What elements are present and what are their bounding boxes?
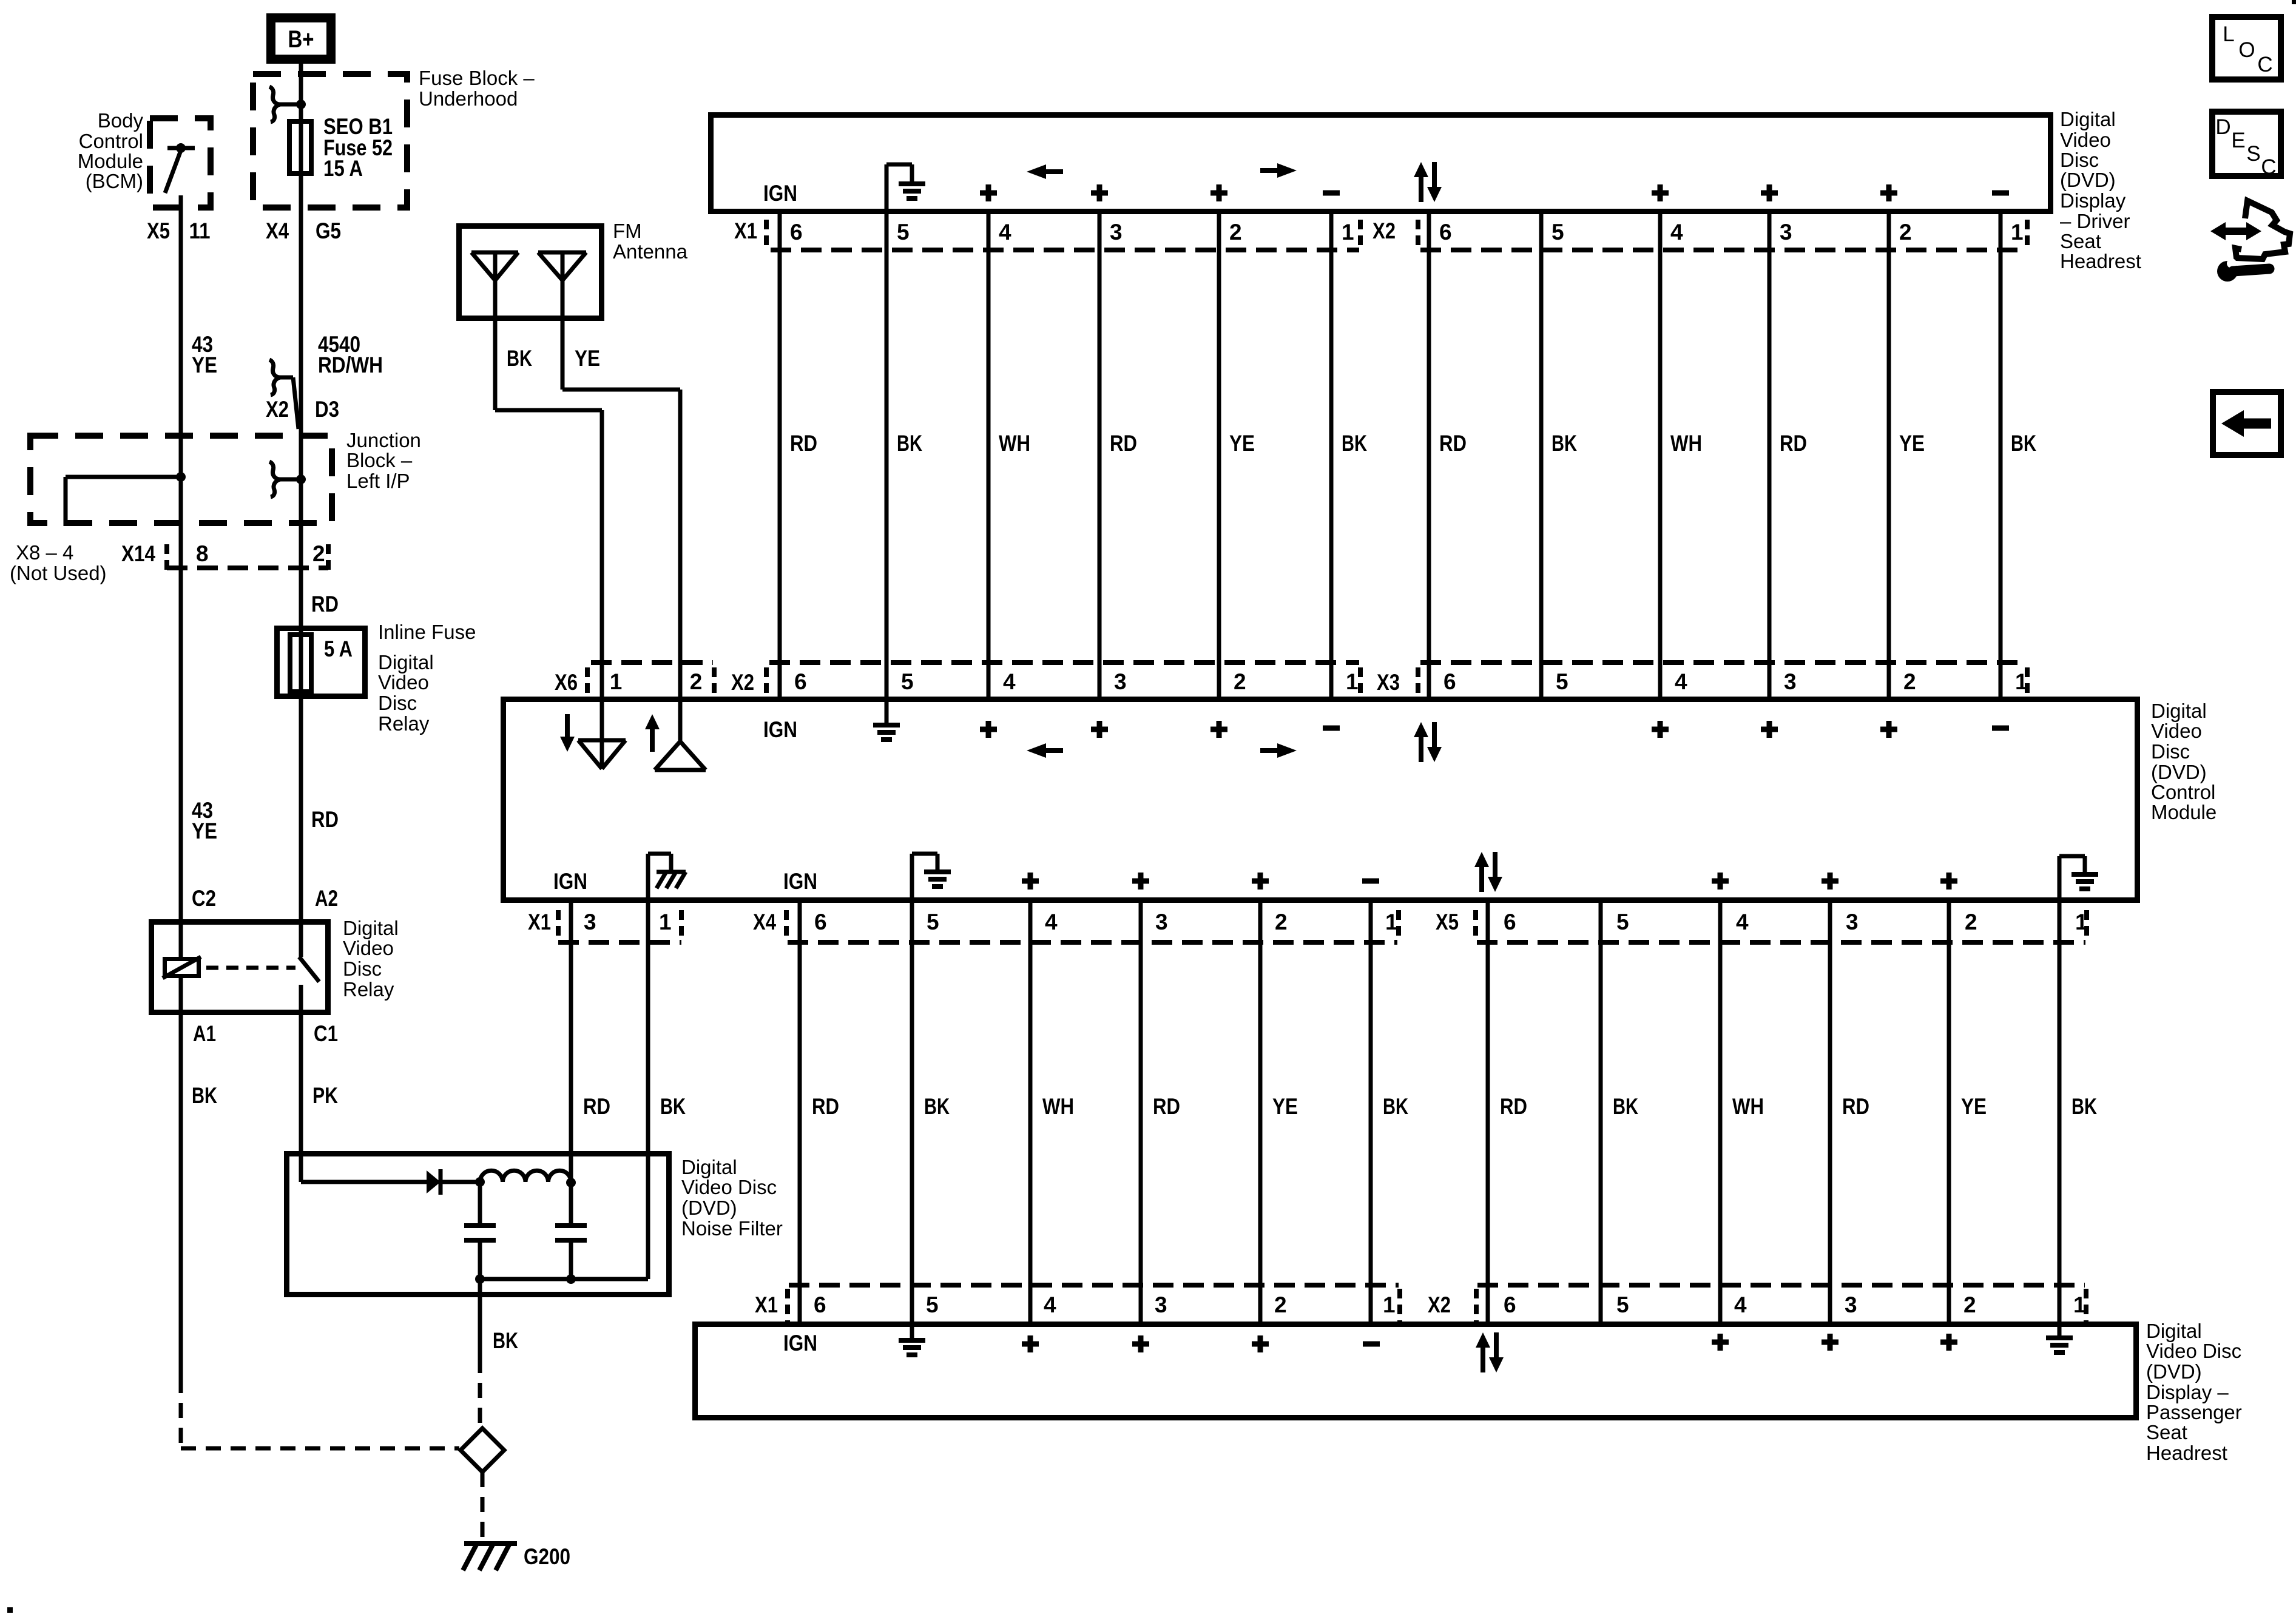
svg-text:RD: RD bbox=[812, 1094, 839, 1119]
wire X5-5 BK bbox=[1599, 900, 1603, 1325]
svg-text:RD: RD bbox=[1153, 1094, 1180, 1119]
wire X4-1 BK bbox=[1369, 900, 1373, 1325]
svg-text:Video: Video bbox=[378, 671, 429, 694]
wire X2-1 BK bbox=[1999, 212, 2003, 699]
svg-text:RD: RD bbox=[1780, 431, 1807, 456]
top box symbols bbox=[980, 184, 997, 201]
svg-text:WH: WH bbox=[1670, 431, 1702, 456]
svg-text:5: 5 bbox=[926, 1292, 939, 1317]
svg-text:BK: BK bbox=[2071, 1094, 2097, 1119]
filter input wire bbox=[301, 1180, 427, 1184]
DVD display passenger seat headrest box bbox=[695, 1325, 2136, 1418]
svg-text:Module: Module bbox=[2151, 801, 2217, 823]
svg-text:RD: RD bbox=[1439, 431, 1467, 456]
dashed row 1 bbox=[771, 248, 1359, 252]
control module ground X4-5 bbox=[912, 854, 951, 900]
svg-text:3: 3 bbox=[584, 910, 596, 934]
svg-text:3: 3 bbox=[1845, 1292, 1857, 1317]
svg-text:Headrest: Headrest bbox=[2146, 1442, 2227, 1464]
node diode-inductor bbox=[475, 1177, 485, 1187]
svg-text:BK: BK bbox=[660, 1094, 686, 1119]
svg-text:X8 – 4: X8 – 4 bbox=[16, 541, 73, 564]
wire 4540 RD/WH bbox=[299, 211, 303, 957]
svg-text:G5: G5 bbox=[316, 218, 341, 243]
svg-text:Passenger: Passenger bbox=[2146, 1401, 2242, 1423]
svg-text:– Driver: – Driver bbox=[2060, 210, 2130, 232]
digital video disc relay box bbox=[152, 922, 328, 1013]
svg-text:2: 2 bbox=[1899, 220, 1912, 245]
antenna send symbol X6-2 bbox=[645, 699, 706, 770]
svg-text:3: 3 bbox=[1846, 910, 1859, 934]
node inductor-output bbox=[566, 1178, 576, 1187]
wire X4-3 RD bbox=[1139, 900, 1143, 1325]
svg-text:C1: C1 bbox=[314, 1021, 338, 1046]
svg-text:Disc: Disc bbox=[2151, 740, 2190, 763]
bottom box ground X2-1 bbox=[2046, 1325, 2073, 1352]
svg-text:Relay: Relay bbox=[378, 712, 430, 735]
inline fuse box bbox=[277, 629, 365, 697]
svg-text:Control: Control bbox=[2151, 781, 2215, 803]
svg-text:RD: RD bbox=[583, 1094, 610, 1119]
dashed wire to ground bbox=[481, 1472, 485, 1538]
svg-text:YE: YE bbox=[1899, 431, 1925, 456]
svg-text:3: 3 bbox=[1780, 220, 1792, 245]
svg-text:5: 5 bbox=[1616, 910, 1629, 934]
svg-text:X1: X1 bbox=[528, 910, 551, 934]
wire X5-4 WH bbox=[1718, 900, 1723, 1325]
wire X1-6 RD bbox=[778, 212, 782, 699]
wire B+ to fuse block bbox=[299, 64, 303, 119]
svg-text:1: 1 bbox=[659, 910, 672, 934]
svg-text:(Not Used): (Not Used) bbox=[10, 562, 107, 584]
body control module (BCM) dashed box bbox=[150, 118, 211, 208]
bottom box symbols bbox=[1022, 1335, 1039, 1352]
svg-text:3: 3 bbox=[1155, 910, 1168, 934]
svg-text:BK: BK bbox=[493, 1328, 518, 1353]
svg-text:X2: X2 bbox=[266, 397, 289, 422]
wire X2-2 YE bbox=[1887, 212, 1891, 699]
BCM internal switch bbox=[176, 143, 186, 153]
svg-text:D3: D3 bbox=[315, 397, 339, 422]
svg-text:X6: X6 bbox=[555, 670, 578, 695]
BK output wire bbox=[478, 1279, 482, 1358]
svg-text:8: 8 bbox=[196, 541, 209, 566]
wire X1-1 BK bbox=[1329, 212, 1334, 699]
svg-text:5 A: 5 A bbox=[324, 636, 353, 661]
power node B+ bbox=[271, 18, 331, 59]
svg-text:X1: X1 bbox=[755, 1292, 778, 1317]
svg-text:RD/WH: RD/WH bbox=[318, 353, 383, 377]
dashed row 4 bbox=[789, 1283, 1399, 1288]
DVD display driver seat headrest box bbox=[711, 115, 2051, 212]
svg-text:X4: X4 bbox=[753, 910, 776, 934]
svg-text:4: 4 bbox=[1045, 910, 1058, 934]
svg-text:X5: X5 bbox=[147, 218, 170, 243]
svg-text:BK: BK bbox=[1383, 1094, 1408, 1119]
svg-text:RD: RD bbox=[1110, 431, 1137, 456]
svg-text:1: 1 bbox=[610, 669, 623, 694]
svg-text:6: 6 bbox=[1504, 910, 1516, 934]
svg-text:Module: Module bbox=[78, 150, 143, 172]
svg-text:X4: X4 bbox=[266, 218, 289, 243]
svg-text:5: 5 bbox=[901, 669, 914, 694]
svg-text:Video Disc: Video Disc bbox=[681, 1176, 777, 1198]
svg-text:IGN: IGN bbox=[553, 869, 587, 894]
svg-text:6: 6 bbox=[1504, 1292, 1516, 1317]
X14 dashed line bbox=[167, 565, 328, 570]
svg-text:5: 5 bbox=[927, 910, 939, 934]
wire X1-4 WH bbox=[987, 212, 991, 699]
svg-text:BK: BK bbox=[897, 431, 922, 456]
DESC icon bbox=[2212, 112, 2281, 176]
svg-text:11: 11 bbox=[189, 218, 211, 243]
svg-text:BK: BK bbox=[924, 1094, 950, 1119]
svg-text:1: 1 bbox=[1346, 669, 1359, 694]
svg-text:2: 2 bbox=[312, 541, 325, 566]
svg-text:1: 1 bbox=[2011, 220, 2024, 245]
fuse SEO B1 Fuse 52 15 A bbox=[299, 119, 303, 211]
svg-text:6: 6 bbox=[1439, 220, 1452, 245]
wire X2-4 WH bbox=[1658, 212, 1663, 699]
svg-text:2: 2 bbox=[1274, 1292, 1287, 1317]
relay coil bbox=[165, 959, 199, 976]
capacitor C1 bbox=[478, 1182, 482, 1226]
svg-text:(DVD): (DVD) bbox=[2146, 1360, 2202, 1383]
svg-text:X2: X2 bbox=[1428, 1292, 1451, 1317]
antenna wire YE bbox=[561, 321, 565, 390]
svg-text:X2: X2 bbox=[1373, 218, 1396, 243]
svg-text:PK: PK bbox=[312, 1083, 338, 1108]
svg-text:RD: RD bbox=[1500, 1094, 1527, 1119]
inductor bbox=[480, 1170, 571, 1182]
junction block branch wire to X8-4 bbox=[176, 472, 186, 482]
wire X2-6 RD bbox=[1427, 212, 1431, 699]
wire X5-6 RD bbox=[1486, 900, 1490, 1325]
svg-text:B+: B+ bbox=[288, 26, 314, 53]
svg-text:2: 2 bbox=[1903, 669, 1916, 694]
FM antenna box bbox=[459, 226, 602, 319]
svg-text:BK: BK bbox=[192, 1083, 217, 1108]
svg-text:4: 4 bbox=[1003, 669, 1016, 694]
svg-text:Video Disc: Video Disc bbox=[2146, 1340, 2241, 1362]
svg-text:1: 1 bbox=[1383, 1292, 1396, 1317]
svg-text:3: 3 bbox=[1155, 1292, 1167, 1317]
svg-text:4: 4 bbox=[1736, 910, 1749, 934]
wire X1-5 BK bbox=[885, 212, 889, 699]
top box ground X1-5 bbox=[886, 164, 925, 212]
svg-text:YE: YE bbox=[1272, 1094, 1298, 1119]
wire 43 YE from BCM bbox=[179, 211, 183, 957]
wire X1-1 BK bbox=[646, 900, 650, 1279]
relay mech link dashed bbox=[206, 966, 295, 970]
svg-text:2: 2 bbox=[1229, 220, 1242, 245]
wire X1-2 YE bbox=[1217, 212, 1221, 699]
svg-text:Digital: Digital bbox=[343, 917, 399, 939]
svg-text:WH: WH bbox=[999, 431, 1030, 456]
svg-text:X14: X14 bbox=[121, 541, 155, 566]
svg-text:2: 2 bbox=[1965, 910, 1977, 934]
junction block clip on wire 2 bbox=[269, 462, 301, 497]
junction block - left I/P dashed box bbox=[30, 436, 332, 523]
svg-text:IGN: IGN bbox=[783, 1331, 817, 1355]
svg-text:2: 2 bbox=[1963, 1292, 1976, 1317]
svg-text:Inline Fuse: Inline Fuse bbox=[378, 621, 476, 643]
svg-text:E: E bbox=[2231, 129, 2245, 152]
svg-text:YE: YE bbox=[1229, 431, 1255, 456]
svg-text:4: 4 bbox=[999, 220, 1011, 245]
wire X5-3 RD bbox=[1828, 900, 1832, 1325]
svg-text:Fuse Block –: Fuse Block – bbox=[419, 67, 535, 89]
svg-text:Left I/P: Left I/P bbox=[346, 470, 410, 492]
svg-text:Video: Video bbox=[343, 937, 394, 959]
svg-text:Video: Video bbox=[2060, 129, 2111, 151]
svg-text:15 A: 15 A bbox=[323, 156, 363, 181]
DVD noise filter box bbox=[287, 1154, 669, 1295]
svg-text:Display –: Display – bbox=[2146, 1381, 2229, 1403]
bottom box ground X1-5 bbox=[899, 1325, 925, 1355]
connector-view tool icon bbox=[2210, 201, 2290, 282]
svg-text:X1: X1 bbox=[734, 218, 757, 243]
svg-text:BK: BK bbox=[2011, 431, 2036, 456]
control module ground X2-5 bbox=[873, 699, 900, 740]
wire X4-6 RD bbox=[798, 900, 802, 1325]
svg-text:X2: X2 bbox=[731, 670, 754, 695]
svg-text:X5: X5 bbox=[1436, 910, 1459, 934]
svg-text:1: 1 bbox=[1385, 910, 1398, 934]
wire X1-3 RD bbox=[1098, 212, 1102, 699]
svg-text:Body: Body bbox=[98, 109, 144, 132]
svg-text:BK: BK bbox=[1613, 1094, 1638, 1119]
svg-text:6: 6 bbox=[1443, 669, 1456, 694]
wire X5-1 BK bbox=[2058, 900, 2062, 1325]
svg-text:YE: YE bbox=[1961, 1094, 1987, 1119]
svg-text:4: 4 bbox=[1675, 669, 1687, 694]
dashed row 3 bbox=[558, 940, 681, 945]
dashed row 2 bbox=[591, 660, 713, 665]
svg-text:Junction: Junction bbox=[346, 429, 421, 451]
svg-text:A1: A1 bbox=[193, 1021, 216, 1046]
svg-text:4: 4 bbox=[1734, 1292, 1747, 1317]
svg-text:O: O bbox=[2238, 38, 2255, 62]
control module top symbols bbox=[980, 721, 997, 738]
svg-text:Control: Control bbox=[79, 130, 143, 152]
svg-text:L: L bbox=[2223, 22, 2234, 46]
svg-text:Disc: Disc bbox=[2060, 149, 2099, 171]
svg-text:2: 2 bbox=[1275, 910, 1288, 934]
svg-text:Underhood: Underhood bbox=[419, 87, 518, 110]
svg-text:D: D bbox=[2215, 115, 2230, 139]
svg-text:BK: BK bbox=[507, 346, 532, 371]
svg-text:Seat: Seat bbox=[2146, 1421, 2187, 1443]
svg-text:X3: X3 bbox=[1377, 670, 1400, 695]
svg-text:6: 6 bbox=[814, 910, 827, 934]
svg-text:Disc: Disc bbox=[378, 692, 417, 714]
antenna element 2 bbox=[538, 252, 586, 321]
svg-text:(DVD): (DVD) bbox=[681, 1197, 737, 1219]
svg-text:BK: BK bbox=[1551, 431, 1577, 456]
wire X2-3 RD bbox=[1768, 212, 1772, 699]
svg-text:RD: RD bbox=[790, 431, 817, 456]
svg-text:(DVD): (DVD) bbox=[2151, 761, 2207, 783]
svg-text:Relay: Relay bbox=[343, 978, 394, 1001]
svg-text:Seat: Seat bbox=[2060, 230, 2101, 252]
in-line connector X2 D3 bbox=[269, 360, 299, 429]
svg-text:RD: RD bbox=[311, 592, 339, 616]
svg-text:6: 6 bbox=[790, 220, 803, 245]
DVD control module box bbox=[504, 700, 2138, 900]
control module ground X5-1 bbox=[2059, 856, 2098, 900]
svg-text:6: 6 bbox=[814, 1292, 826, 1317]
svg-text:YE: YE bbox=[575, 346, 600, 371]
splice diamond bbox=[461, 1428, 504, 1472]
svg-text:5: 5 bbox=[1551, 220, 1564, 245]
svg-text:YE: YE bbox=[192, 819, 217, 843]
wire X2-5 BK bbox=[1539, 212, 1544, 699]
antenna element 1 bbox=[471, 252, 518, 321]
antenna wire BK bbox=[493, 321, 498, 410]
LOC icon bbox=[2212, 17, 2281, 79]
control module chassis ground X1-1 bbox=[648, 854, 686, 900]
svg-text:IGN: IGN bbox=[763, 181, 797, 206]
svg-text:Block –: Block – bbox=[346, 449, 413, 471]
diode bbox=[427, 1170, 441, 1193]
svg-text:Digital: Digital bbox=[681, 1156, 737, 1178]
svg-text:S: S bbox=[2246, 142, 2260, 166]
svg-text:YE: YE bbox=[192, 353, 217, 377]
svg-text:Headrest: Headrest bbox=[2060, 250, 2141, 272]
svg-text:Digital: Digital bbox=[2151, 700, 2207, 722]
svg-text:3: 3 bbox=[1110, 220, 1123, 245]
svg-text:Digital: Digital bbox=[2060, 108, 2116, 130]
svg-text:5: 5 bbox=[1616, 1292, 1629, 1317]
svg-text:(DVD): (DVD) bbox=[2060, 169, 2116, 191]
svg-text:Video: Video bbox=[2151, 720, 2202, 742]
svg-text:BK: BK bbox=[1342, 431, 1367, 456]
wire X5-2 YE bbox=[1947, 900, 1951, 1325]
svg-text:IGN: IGN bbox=[763, 717, 797, 742]
relay switch blade bbox=[299, 957, 319, 982]
wire A1 BK down bbox=[179, 1015, 183, 1378]
wire X4-5 BK bbox=[910, 900, 914, 1325]
svg-text:WH: WH bbox=[1042, 1094, 1074, 1119]
svg-text:5: 5 bbox=[1556, 669, 1568, 694]
capacitor C2 bbox=[569, 1183, 573, 1226]
svg-text:Antenna: Antenna bbox=[613, 240, 688, 263]
fuse block - underhood dashed box bbox=[253, 74, 407, 208]
ground G200 bbox=[463, 1544, 517, 1570]
svg-text:Digital: Digital bbox=[378, 651, 434, 673]
svg-text:C: C bbox=[2257, 53, 2272, 76]
page specks bbox=[7, 1607, 13, 1613]
antenna receive symbol X6-1 bbox=[560, 699, 626, 769]
relay coil lower lead bbox=[179, 978, 183, 1015]
svg-text:FM: FM bbox=[613, 220, 642, 242]
wire C1 PK down bbox=[299, 1015, 303, 1182]
svg-text:4: 4 bbox=[1044, 1292, 1056, 1317]
svg-text:C: C bbox=[2261, 155, 2276, 179]
control module bottom symbols bbox=[1022, 873, 1039, 890]
svg-text:RD: RD bbox=[1842, 1094, 1869, 1119]
wire X4-2 YE bbox=[1258, 900, 1263, 1325]
svg-text:G200: G200 bbox=[524, 1544, 570, 1569]
svg-text:A2: A2 bbox=[315, 886, 338, 911]
svg-text:Display: Display bbox=[2060, 189, 2126, 212]
svg-text:Noise Filter: Noise Filter bbox=[681, 1217, 783, 1240]
svg-text:3: 3 bbox=[1784, 669, 1797, 694]
wire X1-3 RD bbox=[569, 900, 573, 1183]
svg-text:4: 4 bbox=[1670, 220, 1683, 245]
ground bus bbox=[480, 1277, 648, 1281]
svg-text:WH: WH bbox=[1732, 1094, 1764, 1119]
svg-text:C2: C2 bbox=[192, 886, 216, 911]
svg-text:2: 2 bbox=[1234, 669, 1246, 694]
svg-text:5: 5 bbox=[897, 220, 910, 245]
dashed BK wire to splice bbox=[179, 1378, 183, 1448]
svg-text:2: 2 bbox=[690, 669, 703, 694]
svg-text:Disc: Disc bbox=[343, 957, 382, 980]
svg-text:RD: RD bbox=[311, 807, 339, 832]
svg-text:IGN: IGN bbox=[783, 869, 817, 894]
svg-text:Digital: Digital bbox=[2146, 1320, 2202, 1342]
svg-text:3: 3 bbox=[1114, 669, 1127, 694]
svg-text:(BCM): (BCM) bbox=[86, 170, 143, 192]
back-arrow icon bbox=[2213, 392, 2281, 455]
svg-text:6: 6 bbox=[794, 669, 807, 694]
svg-text:1: 1 bbox=[1342, 220, 1354, 245]
wire X4-4 WH bbox=[1028, 900, 1033, 1325]
fuse block clip terminal bbox=[269, 87, 301, 122]
